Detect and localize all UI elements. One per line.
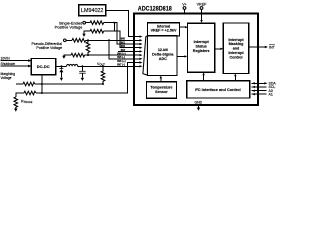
block 12-bit delta-sigma ADC box bbox=[147, 36, 177, 76]
ground symbol at C1 bbox=[81, 78, 84, 81]
svg-text:ADC: ADC bbox=[159, 57, 167, 61]
wire shunt row B left with ground stub bbox=[84, 31, 90, 34]
diode D1 anode wire bbox=[60, 66, 62, 68]
resistor R4 pseudo-diff lower bbox=[71, 53, 85, 57]
wire VREF stub bbox=[201, 9, 203, 20]
arrowhead internal vref bbox=[185, 26, 188, 28]
ground symbol GND pin bbox=[197, 108, 200, 111]
capacitor C1 bottom wire bbox=[81, 73, 83, 77]
svg-text:Delta-Sigma: Delta-Sigma bbox=[152, 53, 174, 57]
resistor R9 R_TRACE vertical bbox=[14, 97, 18, 109]
arrowhead VREF into chip bbox=[200, 20, 202, 23]
svg-text:Positive Voltage: Positive Voltage bbox=[36, 46, 62, 50]
wire node to row3 bbox=[104, 23, 140, 44]
svg-text:IN3: IN3 bbox=[121, 48, 126, 52]
block interrupt masking and control box bbox=[223, 23, 248, 73]
svg-text:ADC128D818: ADC128D818 bbox=[138, 7, 173, 13]
capacitor C1 top wire bbox=[81, 66, 83, 71]
resistor R7 feedback divider vertical bbox=[101, 66, 105, 84]
chip ADC128D818 boundary bbox=[134, 14, 258, 106]
svg-text:10VIN: 10VIN bbox=[1, 57, 11, 61]
svg-text:Positive Voltage: Positive Voltage bbox=[55, 25, 83, 30]
resistor R5 pseudo-diff bridge vertical bbox=[86, 40, 90, 55]
ground symbol at R2 bbox=[82, 34, 85, 37]
svg-text:IN7 (-): IN7 (-) bbox=[117, 63, 125, 67]
arrowheads pin rows into mux bbox=[140, 35, 143, 37]
junction feedback row bbox=[41, 92, 43, 94]
wire GND pin bbox=[198, 105, 200, 108]
junction pseudo upper bbox=[87, 39, 89, 41]
ground symbol at D1 bbox=[60, 78, 63, 81]
svg-text:Interrupt: Interrupt bbox=[228, 51, 244, 55]
svg-text:V+: V+ bbox=[182, 2, 187, 6]
junction node single-ended bbox=[114, 22, 116, 24]
resistor R8 trace row bbox=[24, 91, 36, 95]
svg-text:Status: Status bbox=[196, 45, 207, 49]
wire pseudo-diff upper from terminal bbox=[66, 39, 72, 41]
arrowhead 10VIN bbox=[28, 59, 31, 62]
svg-text:IN5 (-): IN5 (-) bbox=[117, 55, 125, 59]
arrowhead SDA left bbox=[252, 82, 255, 84]
wire stub row5 bbox=[118, 50, 140, 52]
wire internal vref out bbox=[179, 26, 185, 28]
svg-text:IN0: IN0 bbox=[121, 37, 126, 41]
svg-text:A1: A1 bbox=[269, 93, 273, 97]
arrowhead status to masking bbox=[220, 48, 223, 50]
arrowhead I2C to masking bbox=[234, 73, 236, 76]
resistor R2 single-ended shunt bbox=[90, 29, 104, 33]
block temperature sensor box bbox=[146, 82, 176, 99]
wire I2C to masking bbox=[234, 75, 236, 80]
inductor L1 bbox=[67, 64, 78, 66]
block internal VREF box bbox=[148, 23, 180, 36]
mux trapezoid bbox=[143, 36, 148, 76]
svg-text:and: and bbox=[233, 47, 240, 51]
svg-text:VREF = +2.56V: VREF = +2.56V bbox=[151, 29, 177, 33]
terminal VREF bbox=[200, 7, 203, 10]
svg-text:IN4 (+): IN4 (+) bbox=[117, 52, 125, 56]
wire temp sensor to ADC bbox=[160, 78, 162, 82]
block interrupt status registers box bbox=[188, 23, 215, 72]
diode D1 cathode bar bbox=[59, 67, 63, 70]
arrowhead INT bbox=[265, 46, 268, 49]
svg-text:Temperature: Temperature bbox=[150, 86, 172, 90]
junction pseudo branch bbox=[108, 39, 110, 41]
wire status to masking bbox=[215, 48, 221, 50]
wire INT output bbox=[249, 46, 266, 48]
junction pseudo lower bbox=[87, 54, 89, 56]
svg-text:INT: INT bbox=[269, 45, 276, 49]
wire pseudo-diff lower left with ground stub bbox=[64, 54, 71, 57]
svg-text:Sensor: Sensor bbox=[155, 90, 168, 94]
arrowhead SDA right bbox=[264, 82, 267, 84]
wire Shutdown input bbox=[1, 65, 30, 67]
wire pseudo upper to chip row2 bbox=[86, 39, 140, 41]
svg-text:GND: GND bbox=[195, 101, 203, 105]
resistor R6 margining bbox=[23, 82, 35, 86]
wire top rail V+ bbox=[184, 9, 186, 13]
wire A1 bbox=[252, 93, 267, 95]
block I2C interface box bbox=[187, 81, 250, 98]
wire A0 bbox=[252, 90, 267, 92]
wire LM94022 output to row1 bbox=[106, 10, 140, 36]
wire DC-DC feedback pin bbox=[41, 74, 43, 93]
svg-text:12-bit: 12-bit bbox=[158, 48, 169, 52]
wire pseudo lower to chip row6 bbox=[85, 54, 140, 56]
svg-text:DC-DC: DC-DC bbox=[37, 64, 50, 69]
resistor R1 single-ended series bbox=[90, 21, 104, 25]
wire D1 to ground bbox=[60, 72, 62, 77]
arrowhead ADC to status bbox=[184, 55, 187, 57]
ground symbol at R4 bbox=[62, 56, 65, 59]
resistor R3 pseudo-diff upper bbox=[72, 39, 86, 43]
wire margining voltage input bbox=[16, 83, 23, 85]
terminal single-ended input bbox=[83, 21, 86, 24]
svg-text:Voltage: Voltage bbox=[1, 76, 12, 80]
junction margining bbox=[41, 83, 43, 85]
wire single-ended row A bbox=[86, 22, 90, 24]
wire 10VIN input bbox=[1, 60, 30, 62]
wire feedback to row8 bbox=[42, 63, 140, 94]
DC-DC converter U1 box bbox=[31, 59, 55, 75]
wire I2C to status regs bbox=[203, 74, 205, 80]
svg-text:Control: Control bbox=[229, 55, 242, 59]
svg-text:Interrupt: Interrupt bbox=[228, 38, 244, 42]
junction VOUT bbox=[102, 65, 104, 67]
wire ADC to status bbox=[177, 55, 185, 57]
wire VOUT into chip row9 bbox=[56, 65, 67, 67]
svg-text:VREF: VREF bbox=[197, 2, 208, 6]
svg-text:IN6 (+): IN6 (+) bbox=[117, 59, 125, 63]
svg-text:Masking: Masking bbox=[229, 42, 244, 46]
junction cap node bbox=[81, 65, 83, 67]
svg-text:RTRACE: RTRACE bbox=[21, 100, 33, 105]
arrowhead temp to ADC bbox=[160, 76, 162, 79]
junction V+ top rail bbox=[184, 13, 186, 15]
diode D1 triangle bbox=[59, 69, 63, 72]
wire margining node to divider bbox=[35, 83, 103, 85]
terminal V+ bbox=[183, 7, 186, 10]
ground symbol at R_TRACE bbox=[14, 109, 17, 112]
terminal pseudo-diff input bbox=[64, 39, 67, 42]
svg-text:I2C Interface and Control: I2C Interface and Control bbox=[195, 87, 241, 92]
wire branch to row7 bbox=[109, 40, 140, 59]
svg-text:IN1: IN1 bbox=[121, 40, 126, 44]
arrowhead A1 left bbox=[252, 93, 255, 95]
wire R_TRACE row bbox=[16, 93, 24, 97]
wire SDA bbox=[252, 82, 266, 84]
capacitor C1 plates bbox=[79, 70, 85, 73]
wire SCL bbox=[252, 86, 267, 88]
svg-text:IN2: IN2 bbox=[121, 44, 126, 48]
wire after inductor bbox=[78, 65, 140, 67]
junction divider bottom bbox=[102, 83, 104, 85]
svg-text:Shutdown: Shutdown bbox=[1, 62, 16, 66]
svg-text:Registers: Registers bbox=[193, 49, 210, 53]
wire node join vertical bbox=[114, 23, 116, 32]
svg-text:Interrupt: Interrupt bbox=[194, 40, 210, 44]
junction switch node bbox=[60, 65, 62, 67]
arrowhead A0 left bbox=[252, 90, 255, 92]
arrowhead I2C to status bbox=[202, 72, 204, 75]
wire row B to row4 bbox=[104, 31, 140, 48]
IC U2 LM94022 box bbox=[79, 5, 106, 16]
svg-text:LM94022: LM94022 bbox=[81, 8, 103, 14]
wire trace row to junction bbox=[36, 92, 42, 94]
arrowhead Shutdown bbox=[28, 65, 31, 68]
arrowhead SCL left bbox=[252, 86, 255, 88]
